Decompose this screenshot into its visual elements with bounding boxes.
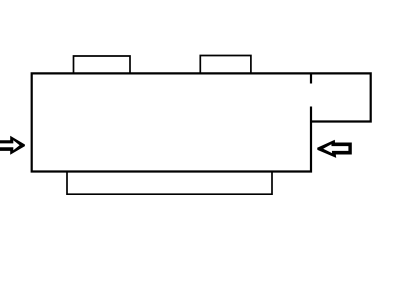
bottom base rectangle	[67, 172, 272, 195]
inlet arrow (left, pointing right)	[0, 136, 25, 155]
tank main outline	[32, 73, 371, 171]
inlet baffle tick	[310, 73, 312, 83]
access port left	[74, 56, 131, 73]
outlet arrow (right, pointing left)	[317, 140, 352, 158]
access port right	[200, 56, 251, 74]
